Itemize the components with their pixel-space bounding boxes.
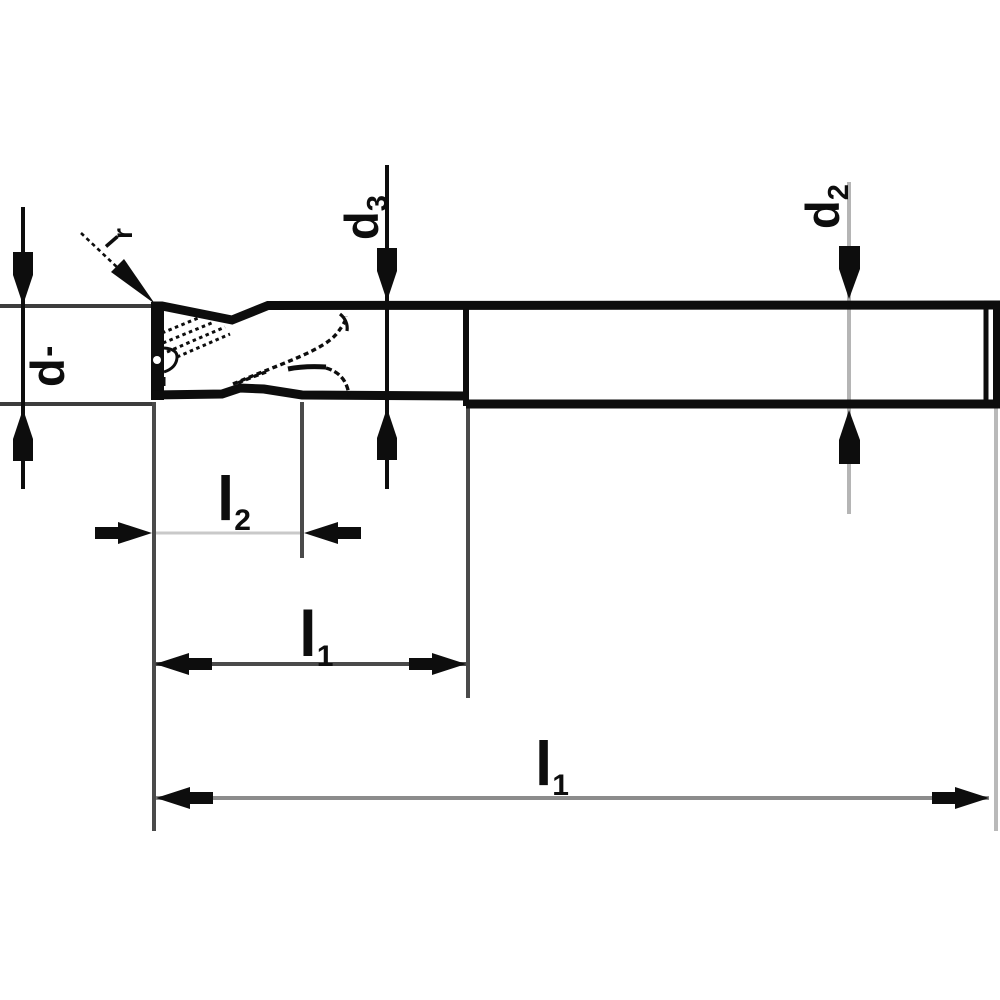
l3 dimension line (middle) [155, 662, 466, 666]
r label diagonal stroke [106, 237, 118, 247]
l1 dimension line (bottom) [156, 796, 989, 800]
white notch in left edge [153, 356, 161, 364]
d1 dimension line [21, 207, 25, 489]
shank right end band [993, 301, 1000, 408]
d2 top arrow [839, 246, 860, 299]
shank right inner edge [984, 301, 989, 408]
d1 top extension line [0, 304, 156, 308]
right extension line x=996 [994, 408, 998, 831]
l3 left arrow [155, 653, 212, 675]
l2 faint connecting line [156, 532, 300, 535]
flute helix B right arc [326, 368, 349, 395]
svg-text:d: d [21, 358, 74, 387]
flute helix B left dashes [238, 372, 266, 383]
flute helix A (lower-left to upper-right) [233, 316, 346, 384]
l2 right outside arrow [304, 522, 361, 544]
d1 subscript tick [48, 347, 53, 356]
d2 bottom arrow [839, 410, 860, 464]
shank bottom edge [466, 400, 1000, 409]
flute edge thick segment [288, 367, 326, 369]
d3 dimension line [385, 165, 389, 489]
cutter body: left end edge [151, 302, 164, 400]
step line between neck and shank [463, 302, 469, 406]
d1 bottom extension line [0, 402, 154, 406]
cutter body: top edge with flute dip [152, 305, 1000, 320]
l3 right arrow [409, 653, 466, 675]
l2 right extension line x=302 [300, 402, 304, 558]
l2 left outside arrow [95, 522, 152, 544]
left extension line x=154 [152, 402, 156, 831]
end face small mark [163, 377, 166, 386]
svg-text:r: r [107, 228, 138, 239]
d1 top arrow [13, 252, 33, 305]
cutter body: bottom edge of head/neck with flute bump [152, 388, 466, 396]
l1 left arrow [156, 787, 213, 809]
r leader line [81, 233, 120, 270]
l1 right arrow [932, 787, 989, 809]
r leader arrow [111, 259, 155, 304]
flute hatch lines [162, 316, 230, 357]
step extension line x=468 [466, 406, 470, 698]
flute helix A tip hook [340, 314, 347, 331]
d1 bottom arrow [13, 409, 33, 461]
end face hook curve [164, 348, 177, 372]
d3 top arrow [377, 248, 397, 301]
d3 bottom arrow [377, 408, 397, 460]
d2 dimension line [847, 182, 851, 514]
